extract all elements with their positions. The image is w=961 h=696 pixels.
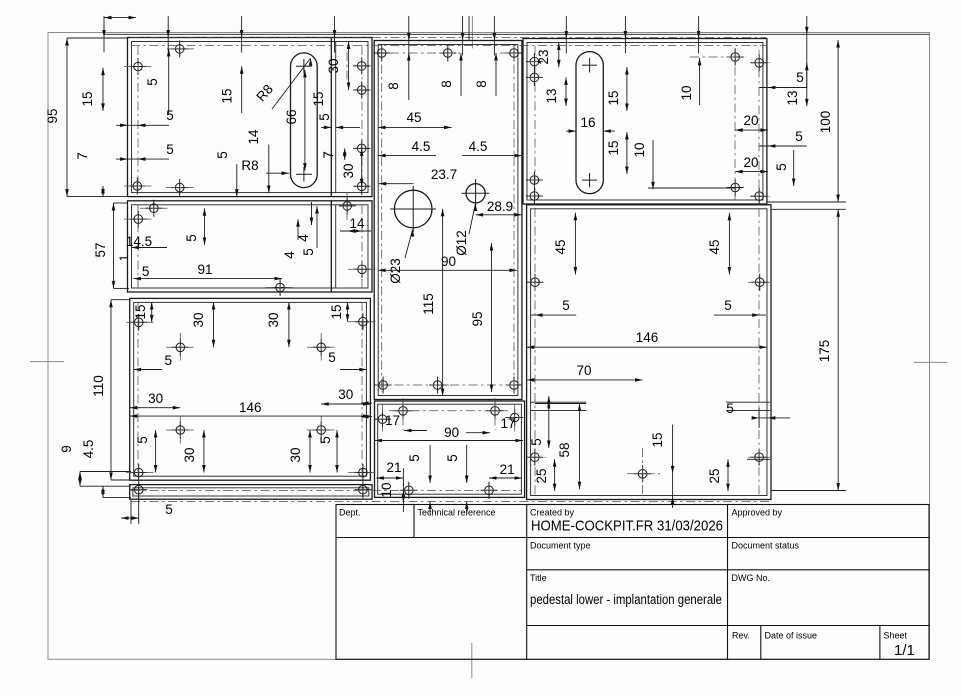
svg-text:146: 146 bbox=[636, 330, 659, 345]
svg-text:5: 5 bbox=[166, 108, 174, 123]
strip D dims bbox=[121, 517, 139, 519]
svg-text:R8: R8 bbox=[241, 158, 258, 173]
dim 95 left bbox=[66, 38, 68, 197]
svg-text:21: 21 bbox=[386, 460, 401, 475]
svg-text:66: 66 bbox=[284, 109, 299, 124]
strip A dims bbox=[348, 42, 350, 91]
svg-text:15: 15 bbox=[80, 91, 95, 106]
top extension arrows bbox=[103, 16, 105, 53]
svg-text:100: 100 bbox=[818, 111, 833, 134]
holes bbox=[130, 58, 147, 75]
svg-text:25: 25 bbox=[707, 468, 722, 483]
dim 66 slot bbox=[304, 70, 306, 171]
panel row A (top-left) bbox=[128, 38, 373, 197]
svg-text:5: 5 bbox=[145, 78, 160, 86]
svg-text:23.7: 23.7 bbox=[431, 167, 457, 182]
slot in panel A bbox=[291, 53, 318, 188]
svg-text:110: 110 bbox=[91, 375, 106, 397]
svg-text:16: 16 bbox=[580, 115, 595, 130]
svg-text:57: 57 bbox=[93, 242, 108, 257]
svg-text:17: 17 bbox=[385, 413, 400, 428]
divider row B bbox=[330, 201, 332, 292]
panel M (middle) bbox=[374, 41, 522, 400]
svg-text:Dept.: Dept. bbox=[339, 508, 361, 518]
svg-text:HOME-COCKPIT.FR 31/03/2026: HOME-COCKPIT.FR 31/03/2026 bbox=[531, 519, 723, 535]
svg-text:Title: Title bbox=[530, 573, 547, 583]
R8 leader top bbox=[272, 58, 311, 109]
svg-text:5: 5 bbox=[166, 142, 174, 157]
svg-text:pedestal lower - implantation: pedestal lower - implantation generale bbox=[530, 592, 722, 607]
divider row A bbox=[330, 38, 332, 197]
centering ticks bbox=[30, 361, 64, 363]
panel Q (bottom right) bbox=[527, 205, 771, 500]
panel P dims bbox=[558, 43, 560, 68]
svg-text:15: 15 bbox=[220, 88, 235, 103]
svg-text:15: 15 bbox=[606, 90, 621, 105]
svg-text:70: 70 bbox=[576, 363, 591, 378]
panel Q dims bbox=[574, 213, 576, 275]
svg-text:8: 8 bbox=[439, 80, 454, 88]
svg-text:5: 5 bbox=[184, 234, 199, 242]
svg-text:5: 5 bbox=[301, 248, 316, 256]
dashed centerlines bbox=[131, 45, 766, 47]
svg-text:Rev.: Rev. bbox=[732, 631, 750, 641]
extension line top right bbox=[104, 33, 929, 35]
svg-text:30: 30 bbox=[266, 312, 281, 327]
svg-text:14: 14 bbox=[349, 216, 365, 231]
svg-text:5: 5 bbox=[562, 298, 570, 313]
svg-text:Sheet: Sheet bbox=[884, 631, 908, 641]
circle D23 bbox=[394, 190, 432, 228]
svg-text:5: 5 bbox=[529, 438, 544, 446]
svg-text:5: 5 bbox=[724, 298, 732, 313]
svg-text:13: 13 bbox=[785, 90, 800, 105]
svg-text:45: 45 bbox=[406, 110, 421, 125]
svg-text:30: 30 bbox=[326, 58, 341, 73]
svg-text:20: 20 bbox=[743, 113, 758, 128]
svg-text:28.9: 28.9 bbox=[487, 199, 513, 214]
svg-text:7: 7 bbox=[321, 151, 336, 159]
svg-text:5: 5 bbox=[726, 401, 734, 416]
panel C bbox=[130, 298, 371, 480]
circle D12 bbox=[466, 184, 485, 203]
svg-text:20: 20 bbox=[743, 155, 758, 170]
svg-text:5: 5 bbox=[318, 436, 333, 444]
slot in panel P bbox=[576, 52, 603, 194]
svg-text:5: 5 bbox=[165, 502, 173, 517]
svg-text:30: 30 bbox=[288, 447, 303, 462]
dim 110 left bbox=[110, 300, 112, 480]
N reference lines bbox=[531, 401, 587, 403]
svg-text:15: 15 bbox=[606, 140, 621, 155]
dims right of P bbox=[759, 87, 807, 89]
svg-text:21: 21 bbox=[500, 462, 515, 477]
svg-text:23: 23 bbox=[536, 49, 551, 64]
dim 175 right bbox=[837, 209, 839, 490]
svg-text:58: 58 bbox=[557, 442, 572, 457]
svg-text:95: 95 bbox=[45, 108, 60, 123]
svg-text:175: 175 bbox=[817, 340, 832, 363]
svg-text:13: 13 bbox=[544, 88, 559, 103]
svg-text:146: 146 bbox=[239, 400, 262, 415]
svg-text:1: 1 bbox=[117, 254, 131, 261]
svg-text:10: 10 bbox=[632, 142, 647, 157]
svg-text:5: 5 bbox=[165, 353, 173, 368]
svg-text:Document type: Document type bbox=[530, 541, 591, 551]
svg-text:30: 30 bbox=[182, 447, 197, 462]
svg-text:Ø12: Ø12 bbox=[454, 230, 469, 256]
svg-text:5: 5 bbox=[328, 350, 336, 365]
svg-text:4.5: 4.5 bbox=[412, 139, 431, 154]
svg-text:91: 91 bbox=[197, 262, 212, 277]
dim 4.5 left bbox=[102, 486, 104, 497]
svg-text:Created by: Created by bbox=[530, 508, 575, 518]
svg-text:15: 15 bbox=[133, 304, 148, 319]
svg-text:Ø23: Ø23 bbox=[388, 258, 403, 284]
panel C dims bbox=[151, 302, 153, 322]
svg-text:4.5: 4.5 bbox=[81, 440, 96, 459]
svg-text:5: 5 bbox=[445, 454, 460, 462]
title block bbox=[336, 505, 929, 660]
svg-text:10: 10 bbox=[379, 482, 394, 497]
panel N (bottom middle) bbox=[375, 401, 525, 497]
svg-text:Date of issue: Date of issue bbox=[765, 631, 818, 641]
svg-text:8: 8 bbox=[474, 80, 489, 88]
svg-text:Approved by: Approved by bbox=[732, 508, 783, 518]
svg-text:45: 45 bbox=[553, 239, 568, 254]
svg-text:7: 7 bbox=[75, 152, 90, 160]
panel D strip bbox=[130, 485, 372, 500]
dim 15 left bbox=[102, 68, 104, 111]
svg-text:45: 45 bbox=[707, 239, 722, 254]
svg-text:17: 17 bbox=[500, 416, 515, 431]
svg-text:8: 8 bbox=[386, 82, 401, 90]
svg-text:30: 30 bbox=[148, 391, 163, 406]
dim 5 top right of Q bbox=[759, 417, 790, 419]
panel row B bbox=[128, 201, 373, 292]
svg-text:5: 5 bbox=[795, 129, 803, 144]
svg-text:25: 25 bbox=[534, 468, 549, 483]
panel P (top right) bbox=[523, 39, 767, 205]
svg-text:30: 30 bbox=[338, 387, 353, 402]
svg-text:15: 15 bbox=[311, 91, 326, 106]
svg-text:4: 4 bbox=[296, 234, 311, 242]
svg-text:5: 5 bbox=[135, 436, 150, 444]
svg-text:DWG No.: DWG No. bbox=[732, 573, 771, 583]
svg-text:15: 15 bbox=[329, 304, 344, 319]
svg-text:5: 5 bbox=[407, 454, 422, 462]
svg-text:9: 9 bbox=[59, 445, 74, 453]
svg-text:30: 30 bbox=[341, 163, 356, 178]
dim 57 left bbox=[113, 203, 115, 288]
svg-text:1/1: 1/1 bbox=[894, 642, 915, 659]
svg-text:15: 15 bbox=[650, 432, 665, 447]
dim 14 bbox=[268, 145, 270, 193]
dim 7 left bbox=[102, 186, 104, 197]
svg-text:5: 5 bbox=[774, 163, 789, 171]
panel M dims bbox=[408, 53, 410, 100]
svg-text:5: 5 bbox=[215, 151, 230, 159]
svg-text:4: 4 bbox=[282, 251, 297, 259]
svg-text:5: 5 bbox=[317, 113, 332, 121]
svg-text:90: 90 bbox=[444, 425, 459, 440]
dim 9 left bbox=[79, 472, 81, 487]
svg-text:95: 95 bbox=[470, 311, 485, 326]
svg-text:5: 5 bbox=[142, 264, 150, 279]
svg-text:5: 5 bbox=[796, 70, 804, 85]
svg-text:10: 10 bbox=[679, 85, 694, 100]
svg-text:14: 14 bbox=[246, 129, 261, 145]
svg-text:4.5: 4.5 bbox=[469, 139, 488, 154]
svg-text:115: 115 bbox=[421, 293, 436, 315]
svg-text:30: 30 bbox=[191, 312, 206, 327]
svg-text:Document status: Document status bbox=[732, 541, 800, 551]
panel A dims bbox=[168, 49, 170, 115]
dim 100 right bbox=[837, 40, 839, 202]
